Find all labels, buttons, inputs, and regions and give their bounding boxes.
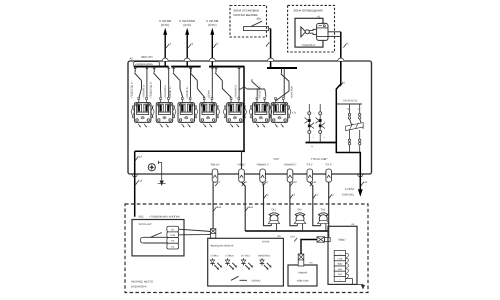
junction unit A5	[328, 223, 357, 284]
svg-text:"ТА 2": "ТА 2"	[325, 163, 332, 166]
wire ТА2 spare	[329, 182, 335, 237]
line unit A4 УЛВС-03М	[288, 261, 317, 286]
wire to 220V mains	[342, 188, 363, 197]
wire 2 to exchange (up arrow)	[179, 19, 195, 67]
220V rail	[336, 100, 362, 111]
wire to ТА1	[263, 182, 272, 226]
loudspeaker A1 СОНАТА-5	[295, 15, 328, 47]
reset switch	[231, 276, 261, 282]
wire strip to earth	[346, 279, 366, 290]
surge arrester 1	[305, 104, 315, 143]
wire ЛВДС drop	[242, 182, 254, 231]
wire БМ-04 drop	[213, 182, 222, 229]
svg-text:А2: А2	[130, 57, 134, 60]
socket 7 and XT1 label	[269, 98, 297, 128]
bottom terminal "БМ-04"	[210, 163, 220, 186]
bottom terminal "ЛИНИЯ 1"	[256, 163, 269, 186]
line disconnect switch	[134, 67, 147, 98]
wire to ТА2	[290, 182, 298, 226]
connector to УЛВС	[298, 254, 304, 266]
operator console A3 БН-04	[208, 235, 284, 286]
svg-text:"ТА 1": "ТА 1"	[306, 163, 313, 166]
top feedthrough	[184, 58, 190, 61]
svg-text:ХА-1: ХА-1	[290, 236, 296, 239]
svg-text:«ЛИНИЯ 5»: «ЛИНИЯ 5»	[235, 84, 238, 98]
mains wire tick 12	[361, 181, 368, 186]
svg-text:«ЭТАЖ 2»: «ЭТАЖ 2»	[186, 86, 189, 99]
svg-text:БН-04: БН-04	[262, 240, 270, 243]
svg-text:"L": "L"	[358, 108, 361, 111]
svg-text:«КНОПКА»: «КНОПКА»	[258, 254, 271, 257]
svg-text:«ТЛФ1»: «ТЛФ1»	[210, 254, 219, 257]
phone bus (thick)	[245, 230, 329, 232]
svg-text:(ОТС): (ОТС)	[208, 23, 216, 27]
svg-text:«ЛИНИЯ 2»: «ЛИНИЯ 2»	[164, 84, 167, 98]
svg-text:«ЭТАЖ 1»: «ЭТАЖ 1»	[169, 86, 172, 99]
svg-text:SB2: SB2	[139, 216, 144, 219]
svg-text:«ТЛФ2»: «ТЛФ2»	[225, 254, 234, 257]
telephone socket 4	[200, 98, 217, 128]
line disconnect switch	[153, 67, 168, 98]
line disconnect switch	[190, 67, 212, 98]
svg-text:ЗУМ: ЗУМ	[338, 273, 342, 276]
svg-text:SB1: SB1	[257, 17, 262, 20]
arrester bus	[306, 143, 337, 149]
line bus 3	[209, 66, 245, 68]
telephone ТА2	[294, 208, 305, 231]
svg-text:⏚: ⏚	[339, 278, 341, 281]
SB1 line switch	[276, 68, 289, 101]
svg-text:УЛВС-03М: УЛВС-03М	[297, 279, 309, 282]
wire SB1 down to A2	[266, 29, 272, 68]
svg-text:4х2: 4х2	[249, 206, 254, 209]
svg-text:"ЛВДС": "ЛВДС"	[237, 163, 246, 166]
svg-text:ЗУМ: ЗУМ	[338, 268, 342, 271]
bus 4 from SB1	[267, 67, 297, 69]
svg-text:ОПЕРАТОРА: ОПЕРАТОРА	[131, 285, 147, 288]
svg-text:"АСТРА-321": "АСТРА-321"	[138, 223, 152, 226]
wire to ТА3	[310, 182, 321, 226]
line disconnect switch 5	[215, 67, 239, 98]
internal rail (thick)	[135, 151, 244, 160]
line bus 2	[171, 66, 201, 68]
terminal strip	[334, 250, 349, 281]
bottom terminal "ЛИНИЯ 2"	[284, 163, 298, 186]
svg-text:+12В: +12В	[337, 258, 342, 261]
ЛВДС terminal stub	[241, 151, 243, 169]
indicator «ГГ-ИС»	[241, 254, 253, 269]
svg-text:«ТРЕВОЖНАЯ» КНОПКА: «ТРЕВОЖНАЯ» КНОПКА	[149, 216, 180, 219]
svg-text:«ПОДЪЕЗД 2»: «ПОДЪЕЗД 2»	[150, 81, 153, 99]
svg-text:«КНОПКА»: «КНОПКА»	[290, 85, 293, 99]
svg-text:ТА2: ТА2	[297, 208, 302, 211]
line disconnect switch	[173, 67, 191, 98]
svg-text:ТА1: ТА1	[271, 208, 276, 211]
telephone socket 3	[178, 98, 195, 128]
svg-text:«ЧЕРДАК-ДОМ»: «ЧЕРДАК-ДОМ»	[135, 63, 154, 66]
svg-text:"ВЫХОД НА ЖСВ-04": "ВЫХОД НА ЖСВ-04"	[210, 244, 234, 247]
svg-text:НО: НО	[171, 228, 175, 231]
top feedthrough	[268, 58, 274, 61]
svg-text:К СЕТИ: К СЕТИ	[345, 188, 354, 191]
optional socket 6	[249, 98, 269, 128]
wire 3 to exchange (up arrow)	[206, 19, 219, 67]
svg-text:"БМ-04": "БМ-04"	[210, 163, 219, 166]
call button installation zone (dashed)	[230, 6, 267, 38]
connector pair	[210, 229, 215, 239]
svg-text:ХТ1: ХТ1	[292, 112, 297, 115]
connector ЛВДС pair	[317, 237, 330, 242]
svg-text:«ПОДЪЕЗД 1»: «ПОДЪЕЗД 1»	[131, 81, 134, 99]
svg-text:КНОПКИ ВЫЗОВА: КНОПКИ ВЫЗОВА	[234, 13, 258, 17]
breaker linkage	[346, 104, 364, 153]
indicator «ТЛФ2»	[225, 254, 237, 269]
main switching unit A2 ВКС-УП	[128, 55, 372, 174]
pushbutton SB1	[243, 17, 270, 30]
bottom terminal "ТА 1"	[306, 163, 317, 186]
optional socket 5	[223, 98, 246, 128]
riser (thick)	[243, 67, 245, 152]
svg-text:"СБРОС": "СБРОС"	[251, 280, 261, 283]
telephone socket 1	[134, 98, 151, 128]
line bus 1	[134, 66, 169, 68]
SB2 contact	[140, 233, 167, 244]
svg-text:СОМ: СОМ	[170, 234, 175, 237]
svg-text:"ЛВДС": "ЛВДС"	[338, 238, 346, 241]
top feedthrough	[162, 58, 168, 61]
svg-text:"СОНАТА-5": "СОНАТА-5"	[301, 44, 315, 47]
terminal headings	[273, 158, 328, 161]
svg-text:220В 50Гц: 220В 50Гц	[342, 194, 355, 197]
svg-text:ВКС-УП: ВКС-УП	[142, 55, 153, 59]
svg-text:(АТС): (АТС)	[183, 23, 191, 27]
surge arrester 2	[316, 104, 326, 143]
wire from A2 to operator zone (thick)	[132, 151, 143, 216]
mains feed (thick)	[336, 61, 363, 191]
svg-text:(ОТС): (ОТС)	[161, 23, 169, 27]
telephone socket 2	[156, 98, 173, 128]
bottom terminal "ЛВДС"	[237, 163, 247, 186]
svg-text:ТА3: ТА3	[321, 208, 326, 211]
top feedthrough	[338, 58, 344, 61]
wire ХА-1 (thick)	[290, 236, 317, 254]
svg-text:РАБОЧЕЕ МЕСТО: РАБОЧЕЕ МЕСТО	[131, 280, 153, 283]
indicator «КНОПКА»	[258, 254, 272, 269]
functional earth terminal	[148, 164, 155, 171]
svg-text:"ГГР-ИС-02ВГ": "ГГР-ИС-02ВГ"	[311, 158, 328, 161]
svg-text:«ДОМ»: «ДОМ»	[208, 89, 211, 98]
rail to socket 6 with hop over riser	[239, 79, 266, 97]
telephone ТА3	[318, 208, 329, 231]
protective earth	[158, 161, 166, 186]
operator workplace zone (dashed)	[125, 204, 368, 293]
wire junction arcs	[134, 68, 240, 69]
svg-text:4х2: 4х2	[217, 206, 222, 209]
wire 1 to exchange (up arrow)	[159, 19, 172, 67]
svg-text:"АТС": "АТС"	[273, 158, 280, 161]
indicator «ТЛФ1»	[210, 254, 222, 269]
svg-text:≈: ≈	[311, 145, 313, 149]
top feedthrough	[209, 58, 215, 61]
svg-text:ЛВДС: ЛВДС	[337, 263, 343, 266]
annunciation zone (dashed)	[288, 5, 335, 52]
svg-text:«ЛИНИЯ 1»: «ЛИНИЯ 1»	[142, 84, 145, 98]
junction dots	[164, 66, 271, 153]
socket flanges	[131, 105, 219, 118]
alarm button assembly SB2	[132, 216, 184, 256]
svg-text:"ЛИНИЯ 2": "ЛИНИЯ 2"	[284, 163, 297, 166]
svg-text:"ЛИНИЯ 1": "ЛИНИЯ 1"	[256, 163, 269, 166]
svg-text:ЗОНА ОПОВЕЩЕНИЯ: ЗОНА ОПОВЕЩЕНИЯ	[294, 9, 323, 13]
SB2 terminal block	[167, 226, 179, 249]
wires SB2 to connector	[179, 229, 211, 235]
telephone ТА1	[268, 208, 279, 231]
bottom terminal "ТА 2"	[325, 163, 332, 182]
svg-text:«ГГ-ИС»: «ГГ-ИС»	[241, 254, 251, 257]
svg-text:"220 В 50 Гц": "220 В 50 Гц"	[342, 100, 357, 103]
svg-text:"ЛИНИЯ": "ЛИНИЯ"	[297, 271, 307, 274]
wires speaker to A2	[328, 32, 349, 67]
